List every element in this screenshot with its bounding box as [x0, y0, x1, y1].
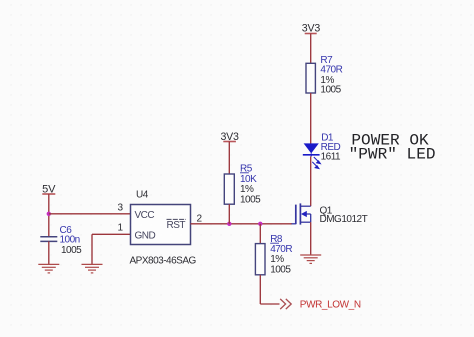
- ground (C6): [38, 264, 59, 273]
- svg-text:1005: 1005: [240, 194, 261, 205]
- pin name RST (with overline): [167, 219, 187, 231]
- wire GND pin horizontal: [92, 233, 131, 235]
- IC U4 body: [131, 205, 191, 245]
- svg-text:GND: GND: [135, 230, 156, 241]
- junction node at R8: [258, 222, 262, 226]
- svg-text:PWR_LOW_N: PWR_LOW_N: [300, 300, 361, 311]
- wire R5 to net: [228, 204, 230, 224]
- wire GND pin vertical: [91, 234, 93, 264]
- power port 3V3 (R7): [302, 23, 321, 35]
- port chevrons: [280, 299, 291, 309]
- wire LED to drain: [310, 156, 312, 206]
- wire net to R8: [259, 224, 261, 244]
- resistor R5: [224, 174, 234, 204]
- LED emission arrows: [312, 157, 320, 169]
- svg-text:U4: U4: [136, 190, 149, 201]
- gate pin wire: [292, 223, 296, 225]
- wire R8 down: [259, 275, 261, 304]
- wire 5V vertical: [48, 194, 50, 237]
- annotation POWER OK "PWR" LED: [349, 131, 436, 163]
- power port 3V3 (R5): [220, 131, 239, 143]
- wire source to ground: [310, 222, 312, 255]
- ground (Q1): [300, 255, 321, 263]
- svg-text:1005: 1005: [320, 85, 341, 96]
- wire C6 to ground: [48, 241, 50, 264]
- junction 5V node: [47, 212, 51, 216]
- resistor R8: [255, 244, 265, 275]
- designator R8: [270, 234, 283, 245]
- power port 5V: [42, 184, 56, 196]
- svg-text:"PWR" LED: "PWR" LED: [349, 146, 436, 164]
- wire 3V3 to R5: [228, 142, 230, 175]
- wire R7 to LED: [310, 93, 312, 144]
- svg-text:1005: 1005: [61, 245, 82, 256]
- wire 5V to VCC pin: [49, 213, 131, 215]
- transistor Q1: [296, 203, 311, 224]
- junction node at R5: [227, 222, 231, 226]
- svg-text:1005: 1005: [270, 264, 291, 275]
- capacitor C6: [40, 237, 57, 242]
- svg-text:VCC: VCC: [135, 210, 155, 221]
- svg-text:RST: RST: [167, 220, 186, 231]
- svg-text:DMG1012T: DMG1012T: [320, 214, 368, 225]
- svg-text:1611: 1611: [321, 152, 341, 163]
- Q1 body arrow: [301, 211, 307, 217]
- resistor R7: [306, 63, 315, 93]
- wire to port: [260, 303, 279, 305]
- LED D1: [303, 143, 320, 156]
- ground (U4 GND): [82, 264, 103, 273]
- svg-text:100n: 100n: [60, 234, 80, 245]
- svg-text:APX803-46SAG: APX803-46SAG: [130, 255, 197, 266]
- wire RST pin to gate net: [191, 223, 293, 225]
- wire 3V3 to R7: [310, 34, 312, 64]
- designator R5: [240, 164, 253, 175]
